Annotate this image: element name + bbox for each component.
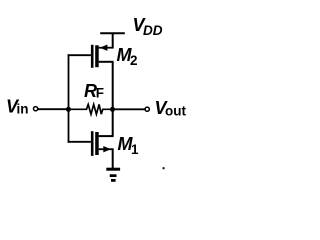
wire M2 gate	[68, 54, 91, 56]
wire output node to Vout terminal	[113, 108, 145, 110]
wire VDD top bar	[100, 32, 125, 34]
svg-text:1: 1	[131, 142, 139, 157]
M2 channel bar	[95, 45, 99, 67]
ground	[106, 168, 120, 182]
M2 gate bar	[91, 45, 94, 68]
label Vout	[155, 98, 187, 119]
transistor M2 (PMOS)	[91, 45, 114, 68]
svg-text:F: F	[96, 86, 104, 101]
wire M1 gate	[68, 141, 91, 143]
resistor RF	[68, 104, 112, 114]
M2 source stub	[99, 47, 114, 49]
M2 drain stub	[99, 61, 114, 63]
wire M1 drain to output node	[112, 109, 114, 136]
svg-text:out: out	[165, 103, 186, 118]
transistor M1 (NMOS)	[91, 131, 114, 156]
wire M2 source to VDD	[112, 33, 114, 48]
wire input to node A	[38, 108, 69, 110]
wire left input column	[68, 54, 70, 142]
label M1	[118, 134, 140, 157]
M1 drain stub	[99, 135, 114, 137]
wire M1 source to ground	[112, 149, 114, 169]
svg-text:2: 2	[130, 53, 138, 68]
label M2	[117, 45, 138, 68]
output terminal circle	[145, 107, 149, 111]
M2 source arrow (points left)	[100, 45, 108, 51]
svg-text:DD: DD	[143, 23, 163, 38]
M1 source stub	[99, 148, 114, 150]
wire M2 drain to output node	[112, 62, 114, 110]
label RF	[84, 81, 104, 101]
stray period dot	[162, 167, 164, 169]
node A junction dot (input/gate node)	[66, 107, 71, 112]
node B junction dot (output node)	[110, 107, 115, 112]
M1 gate bar	[91, 131, 94, 156]
M1 channel bar	[95, 132, 99, 155]
M1 source arrow (points right)	[103, 146, 111, 152]
label Vin	[6, 97, 29, 117]
input terminal circle	[34, 107, 38, 111]
label VDD	[133, 15, 163, 38]
svg-text:in: in	[17, 101, 29, 116]
